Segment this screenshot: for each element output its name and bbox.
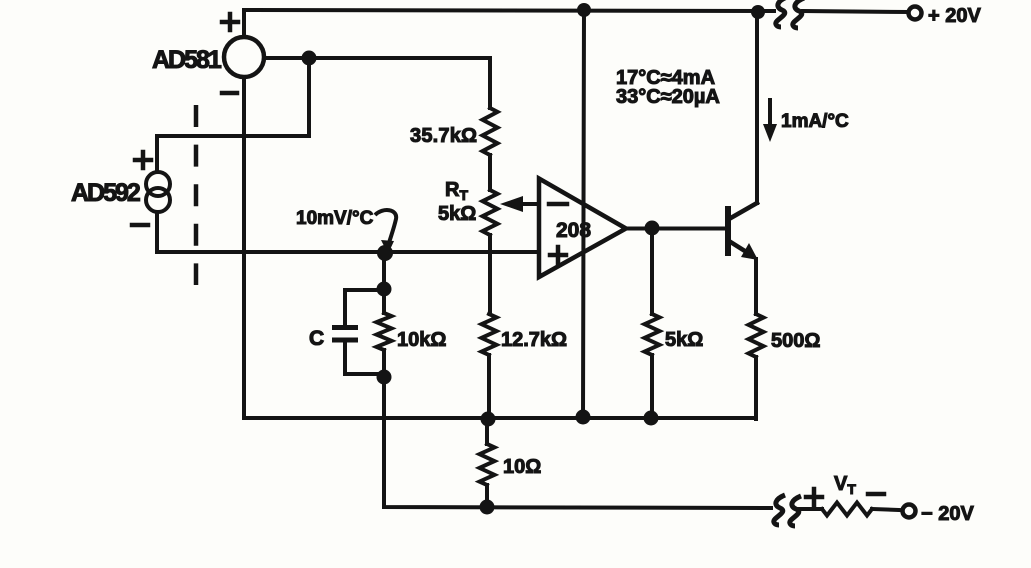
wire AD581 output to 35.7k resistor: [264, 58, 490, 108]
capacitor C top wire: [345, 290, 384, 325]
label 208: [556, 219, 591, 242]
label 1mA/degC text: [781, 111, 849, 132]
resistor 35.7k: [483, 108, 498, 155]
wire rail through op-amp to bus: [583, 10, 584, 417]
label 35.7k: [410, 125, 477, 147]
wire AD581 plus lead: [242, 10, 246, 37]
resistor 10 ohm: [485, 419, 489, 444]
label AD581: [152, 46, 222, 74]
label C: [309, 327, 324, 350]
wire 35.7k to pot: [488, 155, 492, 190]
node junction dot 10k top: [377, 282, 392, 297]
svg-text:10kΩ: 10kΩ: [397, 329, 446, 351]
svg-text:10mV/°C: 10mV/°C: [296, 208, 374, 229]
node junction dot bus x489: [481, 412, 496, 427]
dashed boundary line: [194, 105, 199, 285]
resistor VT: [822, 503, 872, 516]
label 5k: [665, 329, 703, 351]
resistor 10k: [377, 313, 392, 350]
transistor collector line: [729, 203, 757, 219]
label 500 ohm: [771, 330, 820, 352]
wire AD581 minus lead down to bottom bus: [242, 77, 246, 418]
wire +20V top rail: [244, 10, 907, 12]
break symbol top rail: [776, 0, 804, 28]
label minus sign VT: [868, 492, 884, 497]
svg-text:AD581: AD581: [152, 46, 222, 74]
voltage reference AD581: [224, 37, 264, 77]
svg-text:− 20V: − 20V: [921, 503, 974, 525]
transistor Q1 base bar: [725, 206, 731, 256]
label op-amp plus input: [550, 247, 566, 263]
label plus sign AD592: [135, 152, 151, 168]
wire VT to terminal: [872, 509, 900, 510]
wire 10 ohm bottom: [485, 485, 489, 507]
wire emitter lead: [754, 259, 758, 314]
svg-text:C: C: [309, 327, 324, 350]
resistor 12.7k: [482, 314, 497, 355]
svg-text:1mA/°C: 1mA/°C: [781, 111, 849, 132]
wire lower rail to VT: [797, 507, 822, 511]
wiper arrow to op-amp minus input: [500, 196, 539, 212]
svg-text:33°C≈20µA: 33°C≈20µA: [616, 86, 720, 108]
wire collector riser to +20V rail: [755, 12, 759, 203]
label VT: [834, 473, 856, 497]
op-amp 208: [539, 179, 626, 278]
label current arrow 1mA/degC: [763, 100, 777, 142]
label op-amp minus input: [549, 202, 567, 207]
label 10k: [397, 329, 446, 351]
svg-text:+ 20V: + 20V: [928, 5, 981, 27]
node junction dot top rail x584: [577, 3, 591, 17]
capacitor C bottom wire: [345, 342, 384, 374]
node junction dot bus x583: [576, 410, 591, 425]
node junction dot bus x652: [644, 411, 659, 426]
label 10mV/degC: [296, 208, 374, 229]
node junction dot 10mV node: [377, 245, 393, 261]
node junction dot 10k bottom: [377, 370, 392, 385]
label minus sign AD581: [222, 91, 237, 96]
label 17C 4mA: [616, 67, 715, 89]
label minus sign AD592: [132, 223, 148, 228]
label plus sign VT: [806, 489, 822, 505]
label 10 ohm: [503, 456, 541, 478]
capacitor C plates: [332, 328, 358, 341]
wire pot bottom to 12.7k top: [488, 235, 492, 314]
label 33C 20uA: [616, 86, 720, 108]
label 12.7k: [501, 329, 567, 351]
svg-text:35.7kΩ: 35.7kΩ: [410, 125, 477, 147]
terminal -20V: [903, 505, 916, 518]
node junction dot output: [645, 221, 660, 236]
node junction dot top rail x758: [751, 5, 765, 19]
svg-text:500Ω: 500Ω: [771, 330, 820, 352]
wire 5k bottom to bus: [650, 355, 654, 418]
svg-text:10Ω: 10Ω: [503, 456, 541, 478]
svg-text:208: 208: [556, 219, 591, 242]
label AD592: [71, 179, 140, 207]
wire op-amp output to transistor base: [625, 227, 726, 231]
wire 10k bottom down to lower rail: [384, 377, 771, 508]
label +20V: [928, 5, 981, 27]
wire AD592 minus lead to op-amp plus input: [157, 212, 539, 252]
potentiometer RT 5k: [483, 190, 498, 235]
label RT: [445, 179, 468, 203]
svg-text:5kΩ: 5kΩ: [438, 203, 476, 225]
wire 12.7k bottom to bus: [487, 355, 491, 418]
svg-text:5kΩ: 5kΩ: [665, 329, 703, 351]
node junction dot x309: [302, 51, 317, 66]
resistor 500 ohm: [749, 314, 764, 357]
resistor 5k: [645, 314, 660, 355]
temperature sensor AD592 current source: [146, 172, 170, 212]
node junction dot 10 ohm bottom: [480, 500, 495, 515]
break symbol lower rail: [774, 495, 801, 526]
label 5k pot: [438, 203, 476, 225]
wire output node down to 5k: [650, 228, 654, 314]
terminal +20V: [909, 7, 922, 20]
wire bottom bus: [244, 416, 756, 420]
curved arrow to 10mV node: [375, 210, 396, 254]
svg-text:AD592: AD592: [71, 179, 140, 207]
svg-text:12.7kΩ: 12.7kΩ: [501, 329, 567, 351]
wire 10k bottom stub: [382, 350, 386, 376]
wire 10mV node down: [382, 253, 386, 288]
wire 10k top stub: [382, 289, 386, 313]
label plus sign AD581: [222, 14, 238, 30]
label -20V: [921, 503, 974, 525]
transistor emitter with arrow: [729, 241, 758, 260]
wire from node x309 down and left to AD592 plus: [157, 58, 309, 172]
wire 500 bottom to bus corner: [754, 357, 758, 419]
